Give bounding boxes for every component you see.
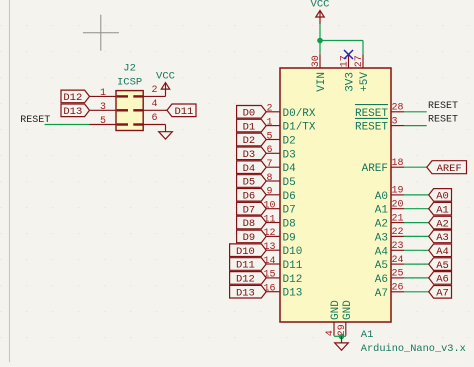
svg-text:A4: A4 — [375, 246, 389, 258]
svg-text:D0: D0 — [243, 108, 256, 120]
svg-text:D7: D7 — [243, 204, 256, 216]
svg-text:3: 3 — [100, 102, 106, 113]
svg-text:18: 18 — [392, 158, 404, 169]
svg-text:D10: D10 — [236, 246, 255, 258]
svg-text:D10: D10 — [283, 246, 303, 258]
svg-text:D4: D4 — [283, 163, 297, 175]
svg-text:D1/TX: D1/TX — [283, 122, 316, 134]
svg-text:2: 2 — [152, 85, 158, 96]
svg-text:D3: D3 — [283, 149, 296, 161]
svg-text:5: 5 — [100, 116, 106, 127]
svg-text:VCC: VCC — [311, 0, 330, 10]
svg-text:D12: D12 — [236, 274, 255, 286]
svg-text:A1: A1 — [436, 204, 449, 216]
svg-text:D4: D4 — [243, 163, 256, 175]
svg-text:D12: D12 — [283, 274, 303, 286]
svg-text:6: 6 — [266, 145, 272, 156]
svg-text:D3: D3 — [243, 149, 256, 161]
svg-text:3: 3 — [392, 116, 398, 127]
svg-text:D9: D9 — [283, 232, 296, 244]
svg-text:Arduino_Nano_v3.x: Arduino_Nano_v3.x — [361, 343, 466, 355]
svg-text:D13: D13 — [63, 106, 82, 118]
svg-text:RESET: RESET — [428, 101, 458, 112]
svg-text:D7: D7 — [283, 205, 296, 217]
svg-text:D2: D2 — [283, 136, 296, 148]
svg-text:28: 28 — [392, 103, 404, 114]
svg-text:VIN: VIN — [316, 72, 328, 92]
svg-text:7: 7 — [266, 159, 272, 170]
svg-text:AREF: AREF — [362, 163, 388, 175]
svg-text:A4: A4 — [436, 246, 449, 258]
svg-text:A6: A6 — [436, 274, 449, 286]
svg-text:25: 25 — [392, 269, 404, 280]
svg-text:GND: GND — [330, 300, 342, 320]
svg-text:D11: D11 — [236, 260, 255, 272]
svg-text:19: 19 — [392, 186, 404, 197]
svg-text:D6: D6 — [283, 191, 296, 203]
svg-text:A1: A1 — [361, 329, 374, 341]
svg-text:D13: D13 — [283, 288, 303, 300]
svg-text:D8: D8 — [283, 219, 296, 231]
svg-text:D2: D2 — [243, 135, 256, 147]
svg-text:RESET: RESET — [20, 115, 50, 126]
svg-text:AREF: AREF — [437, 163, 462, 175]
svg-text:A7: A7 — [436, 288, 449, 300]
svg-text:D6: D6 — [243, 191, 256, 203]
svg-text:+5V: +5V — [359, 72, 371, 92]
svg-text:RESET: RESET — [355, 122, 388, 134]
svg-text:A3: A3 — [375, 232, 388, 244]
svg-text:3V3: 3V3 — [345, 72, 357, 92]
svg-text:A6: A6 — [375, 274, 388, 286]
svg-text:GND: GND — [342, 300, 354, 320]
svg-text:8: 8 — [266, 173, 272, 184]
svg-text:D8: D8 — [243, 218, 256, 230]
svg-text:D9: D9 — [243, 232, 256, 244]
svg-text:D5: D5 — [283, 177, 296, 189]
svg-text:D13: D13 — [236, 287, 255, 299]
svg-text:21: 21 — [392, 213, 404, 224]
svg-text:24: 24 — [392, 255, 404, 266]
svg-text:6: 6 — [152, 113, 158, 124]
svg-text:20: 20 — [392, 200, 404, 211]
svg-text:VCC: VCC — [156, 70, 175, 82]
svg-text:ICSP: ICSP — [117, 77, 142, 89]
svg-text:A7: A7 — [375, 288, 388, 300]
svg-text:A0: A0 — [375, 191, 388, 203]
svg-text:9: 9 — [266, 187, 272, 198]
svg-text:A5: A5 — [436, 260, 449, 272]
svg-text:1: 1 — [266, 117, 272, 128]
svg-text:A2: A2 — [375, 219, 388, 231]
svg-text:A1: A1 — [375, 205, 389, 217]
svg-text:D11: D11 — [174, 106, 193, 118]
svg-text:22: 22 — [392, 227, 404, 238]
svg-text:5: 5 — [266, 131, 272, 142]
svg-text:RESET: RESET — [428, 115, 458, 126]
svg-text:23: 23 — [392, 241, 404, 252]
svg-text:30: 30 — [311, 55, 322, 67]
svg-text:A3: A3 — [436, 232, 449, 244]
svg-text:4: 4 — [152, 99, 158, 110]
svg-text:27: 27 — [354, 55, 365, 67]
svg-text:A0: A0 — [436, 191, 449, 203]
svg-text:D1: D1 — [243, 121, 256, 133]
svg-text:1: 1 — [100, 88, 106, 99]
svg-text:D11: D11 — [283, 260, 303, 272]
svg-text:4: 4 — [325, 330, 336, 336]
svg-text:A2: A2 — [436, 218, 449, 230]
svg-text:A5: A5 — [375, 260, 388, 272]
svg-text:D0/RX: D0/RX — [283, 108, 316, 120]
svg-text:D5: D5 — [243, 177, 256, 189]
svg-text:D12: D12 — [63, 92, 82, 104]
svg-text:J2: J2 — [123, 63, 136, 75]
svg-text:2: 2 — [266, 104, 272, 115]
svg-text:26: 26 — [392, 283, 404, 294]
